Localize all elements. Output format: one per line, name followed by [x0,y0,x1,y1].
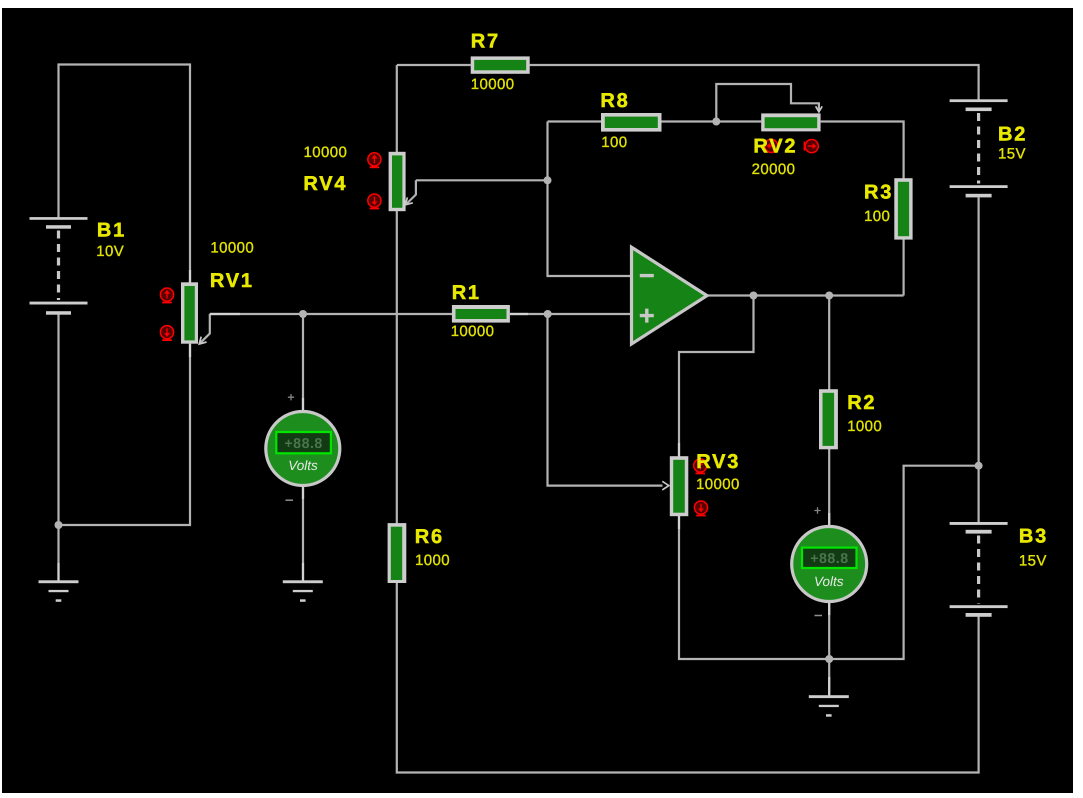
svg-text:10000: 10000 [451,323,495,340]
svg-text:10000: 10000 [304,144,348,161]
svg-text:B2: B2 [998,124,1027,146]
svg-text:RV1: RV1 [210,270,254,292]
svg-text:10000: 10000 [210,239,254,256]
svg-text:B3: B3 [1019,526,1048,548]
svg-text:15V: 15V [1019,552,1047,569]
svg-text:+88.8: +88.8 [284,436,322,452]
svg-text:1000: 1000 [415,552,450,569]
svg-text:R6: R6 [415,526,444,548]
svg-text:RV2: RV2 [753,136,797,158]
svg-text:R2: R2 [847,392,876,414]
svg-text:RV4: RV4 [303,173,347,195]
svg-text:B1: B1 [97,220,126,242]
svg-text:+88.8: +88.8 [810,551,848,567]
svg-text:15V: 15V [998,145,1026,162]
svg-text:Volts: Volts [288,458,318,473]
svg-text:RV3: RV3 [696,451,740,473]
svg-text:100: 100 [601,134,627,151]
svg-text:100: 100 [864,208,890,225]
svg-text:R7: R7 [471,31,500,53]
svg-text:R3: R3 [864,182,893,204]
svg-text:1000: 1000 [847,418,882,435]
svg-text:R8: R8 [600,90,629,112]
svg-text:10000: 10000 [471,76,515,93]
svg-text:10V: 10V [96,243,124,260]
svg-text:20000: 20000 [752,161,796,178]
svg-text:10000: 10000 [696,476,740,493]
svg-text:Volts: Volts [814,574,844,589]
svg-text:R1: R1 [452,282,481,304]
